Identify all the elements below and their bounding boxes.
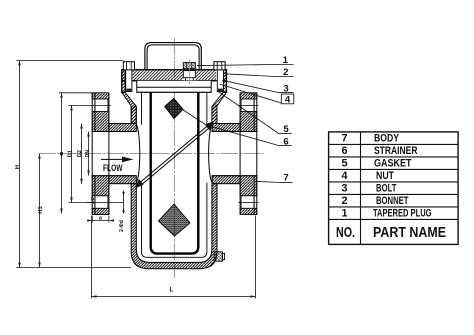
dim flange OD line xyxy=(59,93,92,214)
svg-text:6: 6 xyxy=(283,136,288,147)
svg-text:2: 2 xyxy=(341,195,347,207)
dim bolt hole 2-pd xyxy=(122,191,124,214)
bonnet 2 cover slab xyxy=(122,69,227,92)
strainer mesh diamond top xyxy=(165,99,183,119)
dim H1 line xyxy=(38,154,41,268)
body shoulder left xyxy=(122,92,137,123)
dim H line xyxy=(16,61,131,268)
dim b arrow xyxy=(86,201,98,204)
body inner arc left xyxy=(136,125,139,183)
svg-text:BODY: BODY xyxy=(374,132,400,144)
leader 6 xyxy=(183,110,292,146)
svg-text:7: 7 xyxy=(341,132,347,144)
svg-text:NO.: NO. xyxy=(336,224,355,241)
svg-text:H: H xyxy=(15,165,21,169)
body shoulder right xyxy=(212,92,227,123)
dim D2 line xyxy=(80,124,83,184)
outlet neck bottom wall xyxy=(212,176,240,184)
tapered plug 1 xyxy=(182,60,197,85)
svg-text:H1: H1 xyxy=(38,206,44,214)
dim D1 line xyxy=(69,106,124,203)
svg-text:STRAINER: STRAINER xyxy=(374,145,418,157)
svg-text:5: 5 xyxy=(341,157,347,169)
drain plug xyxy=(214,252,224,261)
strainer removal double arrow xyxy=(135,121,213,188)
leader 4 xyxy=(220,84,282,103)
dim DN line xyxy=(87,132,90,176)
svg-text:5: 5 xyxy=(283,124,289,135)
svg-text:6: 6 xyxy=(341,145,347,157)
leader 1 xyxy=(197,65,294,66)
dim a xyxy=(87,216,114,223)
dim L xyxy=(92,216,256,299)
parts table xyxy=(329,132,459,245)
svg-text:D1: D1 xyxy=(68,150,74,157)
svg-text:FLOW: FLOW xyxy=(103,163,123,173)
callout 4 box xyxy=(281,94,294,104)
bore lines left xyxy=(92,132,136,176)
body 7 upper wall bands xyxy=(131,106,136,124)
bonnet step and gasket seat xyxy=(137,81,211,93)
svg-text:3: 3 xyxy=(283,83,288,94)
svg-text:NUT: NUT xyxy=(376,170,394,182)
svg-text:BOLT: BOLT xyxy=(376,182,397,194)
bolt 3 right with nut 4 xyxy=(214,62,225,92)
leader 5 xyxy=(217,91,291,134)
strainer 6 basket xyxy=(151,92,199,253)
bolt 3 left with nut 4 xyxy=(123,62,134,92)
flange left xyxy=(92,93,109,215)
centerline horizontal xyxy=(39,153,264,155)
leader 2 xyxy=(225,74,294,77)
centerline vertical xyxy=(173,38,175,278)
sump inner wall lines xyxy=(142,92,207,257)
svg-text:3: 3 xyxy=(341,182,347,194)
svg-text:4: 4 xyxy=(341,170,347,182)
svg-text:BONNET: BONNET xyxy=(376,195,409,207)
body inner arc right xyxy=(209,125,212,183)
inlet neck bottom wall xyxy=(109,176,136,184)
svg-text:4: 4 xyxy=(285,95,291,106)
svg-text:2-Φd: 2-Φd xyxy=(119,220,125,232)
inlet neck top wall xyxy=(109,124,136,132)
svg-text:GASKET: GASKET xyxy=(374,157,412,169)
leader 3 xyxy=(222,80,293,92)
flange right xyxy=(239,93,259,215)
strainer mesh diamond bottom xyxy=(159,204,191,236)
svg-text:PART NAME: PART NAME xyxy=(373,224,446,241)
svg-text:L: L xyxy=(170,287,174,294)
leader 7 xyxy=(255,181,293,182)
gasket 5 xyxy=(137,91,211,93)
svg-text:2: 2 xyxy=(283,67,288,78)
svg-text:1: 1 xyxy=(283,55,289,66)
dim labels xyxy=(15,150,174,294)
svg-text:TAPERED PLUG: TAPERED PLUG xyxy=(373,207,432,219)
callout numbers xyxy=(283,55,291,184)
svg-text:7: 7 xyxy=(283,172,288,183)
FLOW arrow xyxy=(101,157,134,163)
svg-text:1: 1 xyxy=(341,207,347,219)
body 7 lower walls and sump xyxy=(131,184,217,269)
svg-text:D2: D2 xyxy=(77,150,83,157)
svg-text:DN: DN xyxy=(85,150,91,158)
bore lines right xyxy=(212,132,257,176)
handle xyxy=(145,43,201,70)
outlet neck top wall xyxy=(212,124,240,132)
